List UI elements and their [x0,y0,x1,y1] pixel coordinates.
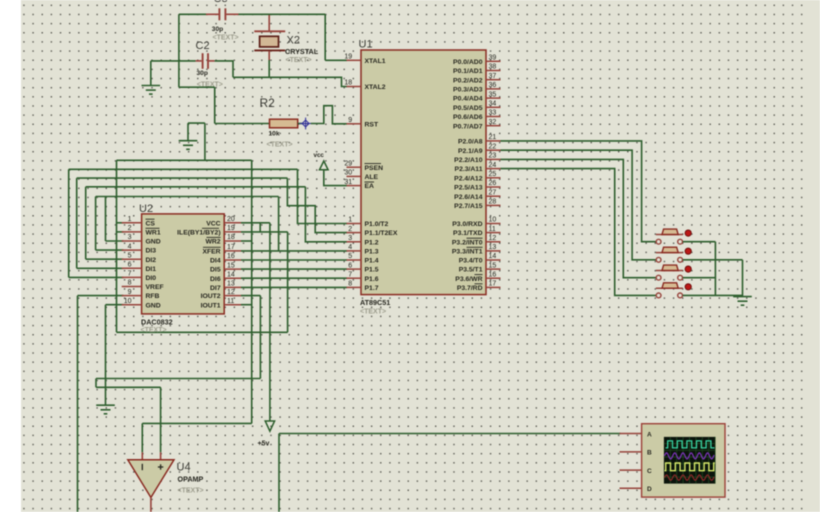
svg-text:32: 32 [489,119,497,126]
wire bus C left vertical [76,178,78,268]
svg-text:3: 3 [348,235,352,242]
wire VCC to ILE corner [269,223,271,232]
IC U2 DAC0832 body [142,214,225,314]
svg-text:37: 37 [489,73,497,80]
power terminal +5v [265,421,274,431]
ground G2 [179,141,198,150]
wire bus D to DI2 pin 5 [86,258,124,260]
svg-text:RFB: RFB [146,293,160,300]
svg-text:VCC: VCC [206,220,220,227]
wire U2 GND pin 10 [106,304,124,306]
ground G1 [142,86,161,95]
svg-text:R2: R2 [260,96,276,110]
wire lower horizontal 332 [117,331,288,333]
svg-text:C2: C2 [196,40,210,52]
svg-text:30: 30 [344,170,352,177]
svg-text:6: 6 [348,262,352,269]
svg-text:U2: U2 [139,203,153,215]
svg-text:10: 10 [124,298,132,305]
wire P2.1 to button 2 [501,150,656,260]
svg-text:<TEXT>: <TEXT> [360,309,386,316]
wire button2 right [683,259,743,261]
wire U2 IOUT1 tap [241,304,252,306]
svg-text:14: 14 [489,253,497,260]
wire U2 GND drop [105,305,107,406]
svg-text:P3.2/INT0: P3.2/INT0 [452,239,483,246]
IC U2 left pins [122,222,142,224]
capacitor C3 plates [219,8,225,20]
wire P2.0 to button 1 [501,141,656,242]
wire XFER to P1.3 row [241,250,347,252]
wire to op-amp minus input [142,422,251,424]
wire IOUT2 drop [259,296,261,379]
wire feedback to bottom edge [278,434,280,512]
wire DI7 to P1.7 row [241,286,347,288]
wire U2 ILE pin19 row [241,231,288,233]
wire XTAL1 net top left [179,13,206,15]
wire top to XTAL1 [324,14,326,60]
capacitor C3 left lead [206,13,219,15]
svg-text:7: 7 [348,271,352,278]
wire tap to U2 pin 1 [117,222,124,224]
svg-text:38: 38 [489,64,497,71]
svg-text:D: D [647,486,652,493]
svg-text:XFER: XFER [202,249,220,256]
wire +5v feed vertical [269,232,271,421]
wire bus D horizontal [86,186,306,188]
wire button1 right [683,241,716,243]
svg-text:35: 35 [489,91,497,98]
svg-text:28: 28 [489,199,497,206]
svg-text:10k: 10k [269,131,280,138]
svg-text:26: 26 [489,180,497,187]
wire to scope channel A [279,433,621,435]
svg-text:5: 5 [348,253,352,260]
wire ground stem G2 [187,123,189,141]
svg-text:20: 20 [227,216,235,223]
IC U2 right pins [224,222,241,224]
wire P2.2 to button 3 [501,159,656,277]
wire bus B horizontal [69,168,298,170]
svg-text:<TEXT>: <TEXT> [267,142,293,149]
wire R2 left lead [215,123,270,125]
resistor R2 [270,119,298,128]
svg-text:P0.2/AD2: P0.2/AD2 [453,77,483,84]
svg-text:P3.3/INT1: P3.3/INT1 [452,249,483,256]
svg-text:CRYSTAL: CRYSTAL [285,47,319,56]
svg-text:DI2: DI2 [146,257,157,264]
wire ground drop buttons [742,260,744,297]
svg-text:P1.0/T2: P1.0/T2 [365,221,389,228]
wire bus B to DI0 pin 7 [69,276,124,278]
junction marker (origin diamond) [300,118,312,130]
svg-text:B: B [647,450,652,457]
svg-text:1: 1 [348,217,352,224]
wire VCC-ILE jog [259,223,261,232]
svg-text:19: 19 [227,225,235,232]
svg-text:11: 11 [227,298,234,305]
svg-text:2: 2 [348,226,352,233]
svg-text:P1.5: P1.5 [365,267,379,274]
wire bus C to P1.1 [287,178,347,233]
oscilloscope body [642,424,725,497]
svg-text:30p: 30p [212,26,223,33]
svg-text:P3.5/T1: P3.5/T1 [459,267,483,274]
wire bus E left vertical [95,197,97,251]
svg-text:P0.7/AD7: P0.7/AD7 [453,123,483,130]
svg-text:A: A [647,431,652,438]
capacitor C3 right lead [226,13,238,15]
svg-text:15: 15 [489,262,497,269]
wire IOUT2 tap [241,295,260,297]
wire bus C to DI1 pin 6 [77,267,124,269]
svg-text:DI0: DI0 [146,275,157,282]
svg-text:IOUT1: IOUT1 [201,302,221,309]
wire bus A horizontal [117,159,252,161]
wire op-amp minus drop [141,423,143,452]
svg-text:P0.4/AD4: P0.4/AD4 [453,96,483,103]
svg-text:GND: GND [146,239,161,246]
wire bus A vertical to op-amp [251,160,253,423]
svg-text:XTAL2: XTAL2 [365,84,386,91]
svg-text:27: 27 [489,189,497,196]
capacitor C2 plates [203,53,208,69]
oscilloscope screen [664,437,716,484]
wire DI5 to P1.5 row [241,268,347,270]
svg-text:<TEXT>: <TEXT> [197,82,223,89]
svg-text:P2.2/A10: P2.2/A10 [454,157,483,164]
wire ground stem G1 [150,61,152,86]
svg-text:P3.1/TXD: P3.1/TXD [453,230,483,237]
svg-text:ALE: ALE [365,174,379,181]
wire bus B left vertical [68,169,70,277]
wire to op-amp plus input [160,387,162,452]
svg-text:18: 18 [227,234,235,241]
wire R2 right lead [298,123,303,125]
wire R2 to RST with bump [311,106,347,124]
svg-text:P3.4/T0: P3.4/T0 [459,258,483,265]
wire noninverting horizontal [96,378,260,380]
svg-text:33: 33 [489,110,497,117]
svg-text:23: 23 [489,153,497,160]
wire bus B to P1.0 [298,169,348,223]
svg-text:CS: CS [146,220,156,227]
wire button3 right [683,277,716,279]
power terminal VCC [320,161,329,170]
wire crystal to XTAL2 net [268,60,270,77]
svg-text:14: 14 [227,271,235,278]
wire drop to R2 [214,87,216,123]
svg-text:DI1: DI1 [146,266,157,273]
wire VCC to EA pin 31 [324,170,347,186]
svg-text:X2: X2 [287,35,300,47]
svg-text:8: 8 [128,280,132,287]
push button SW2 [656,247,691,262]
wire C3 left drop [178,14,180,87]
crystal X2 [254,31,285,50]
svg-text:P2.0/A8: P2.0/A8 [458,139,483,146]
svg-text:P2.3/A11: P2.3/A11 [455,166,483,173]
svg-text:P1.6: P1.6 [365,276,379,283]
svg-text:10: 10 [489,217,497,224]
ground G3 [96,405,115,414]
svg-text:P3.0/RXD: P3.0/RXD [452,221,482,228]
svg-text:P2.1/A9: P2.1/A9 [458,148,483,155]
svg-text:12: 12 [489,235,497,242]
svg-text:EA: EA [365,183,375,190]
wire vertical 287 to ILE row [287,232,289,332]
svg-text:PSEN: PSEN [365,165,384,172]
svg-text:<TEXT>: <TEXT> [178,488,204,495]
svg-text:21: 21 [489,134,497,141]
svg-text:P3.6/WR: P3.6/WR [455,276,482,283]
svg-text:4: 4 [128,243,132,250]
wire P2.3 to button 4 [501,169,656,296]
wire bus E to DI3 pin 4 [96,249,124,251]
wire bus A left vertical [116,160,118,332]
svg-text:12: 12 [227,289,235,296]
svg-text:31: 31 [344,179,352,186]
wire C2 to XTAL2 corner [215,61,233,77]
svg-text:<TEXT>: <TEXT> [213,34,239,41]
svg-text:DAC0832: DAC0832 [141,317,173,326]
svg-text:13: 13 [489,244,497,251]
svg-text:WR1: WR1 [146,230,161,237]
svg-text:9: 9 [128,289,132,296]
svg-text:13: 13 [227,281,235,288]
svg-text:8: 8 [348,281,352,288]
svg-text:GND: GND [146,302,161,309]
wire tap to U2 pin 2 [117,231,124,233]
svg-text:P0.5/AD5: P0.5/AD5 [453,105,483,112]
wire bus D to P1.2 [305,187,347,242]
wire ground to C2 [151,60,196,62]
wire to XTAL2 pin 18 [233,77,347,86]
svg-text:6: 6 [128,262,132,269]
push button SW4 [656,283,691,298]
svg-text:P2.7/A15: P2.7/A15 [454,203,483,210]
wire DI4 to P1.4 row [241,259,347,261]
capacitor C2 left lead [196,60,202,62]
svg-text:DI6: DI6 [210,276,221,283]
svg-text:P2.6/A14: P2.6/A14 [454,194,483,201]
op-amp U4 [128,460,174,498]
op-amp output stub [150,498,152,512]
svg-text:P1.2: P1.2 [365,239,379,246]
svg-text:34: 34 [489,101,497,108]
op-amp minus pin stub [141,452,143,460]
wire button4 right to ground [683,294,743,296]
svg-text:<TEXT>: <TEXT> [141,327,167,334]
svg-text:U4: U4 [177,462,191,474]
wire into XTAL1 pin 19 [325,59,347,61]
svg-text:DI7: DI7 [210,285,221,292]
svg-text:11: 11 [489,226,496,233]
svg-text:16: 16 [227,253,235,260]
svg-text:P0.6/AD6: P0.6/AD6 [453,114,483,121]
wire button bus vertical [714,242,716,296]
svg-text:DI5: DI5 [210,267,221,274]
IC U1 AT89C51 body [361,50,486,295]
ground G4 [733,297,752,306]
svg-text:P1.1/T2EX: P1.1/T2EX [365,230,398,237]
wire RFB pin 9 [78,295,124,297]
svg-text:17: 17 [227,244,235,251]
op-amp plus pin stub [160,452,162,460]
push button SW3 [656,265,691,280]
push button SW1 [656,229,691,244]
svg-text:29: 29 [344,160,352,167]
svg-text:P0.0/AD0: P0.0/AD0 [453,59,483,66]
svg-text:+5v: +5v [258,441,270,448]
svg-text:18: 18 [344,80,352,87]
capacitor C2 right lead [209,60,215,62]
svg-text:15: 15 [227,262,235,269]
svg-text:9: 9 [348,117,352,124]
wire to U2 pin 3 [106,240,124,242]
wire RFB vertical to bottom [77,296,79,512]
svg-text:WR2: WR2 [205,239,220,246]
svg-text:17: 17 [489,281,497,288]
svg-text:16: 16 [489,271,497,278]
wire bus C horizontal [77,177,288,179]
wire jog horizontal [179,86,215,88]
svg-text:U1: U1 [359,39,373,51]
wire bus D left vertical [85,187,87,259]
wire jog bottom [96,386,161,388]
wire U2 WR2 tap [241,240,252,242]
svg-text:2: 2 [128,225,132,232]
svg-text:C3: C3 [214,0,228,5]
svg-text:DI4: DI4 [210,258,221,265]
svg-text:VREF: VREF [146,284,164,291]
wire bus E drop to XFER row [278,197,280,251]
svg-text:DI3: DI3 [146,248,157,255]
svg-text:P2.4/A12: P2.4/A12 [454,175,483,182]
svg-text:RST: RST [365,121,379,128]
svg-text:P2.5/A13: P2.5/A13 [454,185,483,192]
svg-text:ILE(BY1/BY2): ILE(BY1/BY2) [177,230,220,237]
svg-text:P0.1/AD1: P0.1/AD1 [453,68,483,75]
svg-text:<TEXT>: <TEXT> [286,57,312,64]
wire DI6 to P1.6 row [241,277,347,279]
svg-text:1: 1 [128,216,132,223]
wire XTAL1 net top right [238,13,326,15]
crystal X2 bottom stem red [268,51,270,60]
svg-text:30p: 30p [197,70,208,77]
svg-text:C: C [647,468,652,475]
wire ground G2 tap horizontal [188,122,205,124]
IC U1 left pins [347,59,362,61]
svg-text:P1.7: P1.7 [365,285,379,292]
svg-text:P1.3: P1.3 [365,249,379,256]
crystal X2 top stem [268,15,270,31]
svg-text:AT89C51: AT89C51 [360,298,390,307]
svg-text:4: 4 [348,244,352,251]
wire bus E horizontal [96,196,279,198]
wire jog left [95,379,97,388]
svg-text:22: 22 [489,143,497,150]
svg-text:19: 19 [344,54,352,61]
svg-text:36: 36 [489,82,497,89]
svg-text:P1.4: P1.4 [365,258,379,265]
svg-text:3: 3 [128,234,132,241]
svg-text:25: 25 [489,171,497,178]
svg-text:7: 7 [128,271,132,278]
svg-text:24: 24 [489,162,497,169]
svg-text:39: 39 [489,55,497,62]
svg-text:XTAL1: XTAL1 [365,58,386,65]
wire ground G2 tap drop [204,123,206,160]
svg-text:P0.3/AD3: P0.3/AD3 [453,87,483,94]
IC U1 right pins [486,60,501,62]
svg-text:vcc: vcc [314,152,325,159]
wire pin3 riser [105,197,107,242]
oscilloscope pins A B C D [620,433,642,435]
svg-text:5: 5 [128,252,132,259]
svg-text:IOUT2: IOUT2 [201,293,221,300]
wire U2 VCC pin20 row [241,222,270,224]
svg-text:OPAMP: OPAMP [178,475,204,484]
svg-text:P3.7/RD: P3.7/RD [457,285,483,292]
